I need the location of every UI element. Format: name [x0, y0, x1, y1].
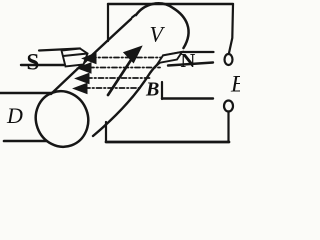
- terminal circle bottom: [224, 101, 233, 112]
- svg-text:B: B: [145, 79, 159, 101]
- magnet S bar top line: [39, 49, 80, 51]
- cylinder upper side line: [51, 19, 131, 94]
- wire top-left vertical: [107, 4, 109, 41]
- pole piece box N: [158, 52, 182, 63]
- rotation arrow shaft: [108, 60, 131, 95]
- wire left axle bottom: [4, 140, 46, 143]
- svg-text:V: V: [150, 22, 166, 47]
- wire right vertical lower: [227, 112, 229, 143]
- field arrow 4: [74, 83, 88, 93]
- field arrow 1: [83, 53, 97, 64]
- field line 4 dash-dot: [85, 87, 142, 89]
- field line 2 dash-dot: [89, 67, 160, 69]
- svg-text:N: N: [181, 50, 196, 72]
- magnet N bar bottom line: [168, 63, 213, 66]
- magnet N bar top line: [163, 52, 214, 56]
- rotation arrow head: [124, 47, 142, 63]
- cylinder side line end dash: [132, 15, 136, 18]
- field arrow 3: [76, 73, 90, 83]
- terminal circle top: [225, 54, 233, 65]
- svg-text:S: S: [27, 50, 40, 75]
- wire right vertical upper: [229, 5, 233, 54]
- field line 1 dash-dot: [91, 57, 162, 59]
- svg-text:E: E: [230, 72, 240, 97]
- field line 3 dash-dot: [87, 77, 152, 79]
- field arrow 2: [78, 63, 92, 73]
- wire bottom-left riser: [105, 122, 107, 142]
- cylinder lower side line: [93, 59, 166, 136]
- wire top horizontal: [108, 3, 233, 5]
- svg-text:D: D: [6, 103, 23, 128]
- wire left axle top: [0, 92, 52, 94]
- wire bottom horizontal: [106, 141, 229, 144]
- magnet S bar bottom line: [21, 64, 64, 66]
- cylinder left end cap: [28, 84, 96, 154]
- pole piece box S: [62, 49, 88, 67]
- cylinder top end cap arc: [136, 3, 189, 48]
- brush tick at B: [161, 82, 163, 99]
- brush wire at B: [162, 97, 213, 99]
